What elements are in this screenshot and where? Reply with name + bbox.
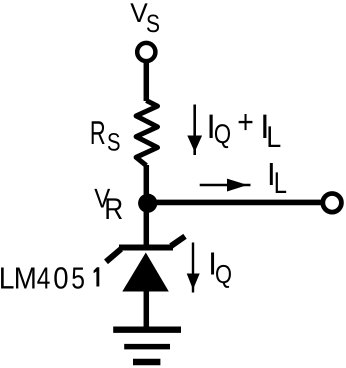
svg-text:S: S — [107, 129, 121, 157]
svg-text:0: 0 — [53, 261, 68, 295]
arrow IL current — [200, 179, 251, 192]
node VS label — [130, 0, 160, 38]
svg-text:4: 4 — [37, 261, 51, 295]
label IQ — [208, 245, 232, 289]
svg-text:5: 5 — [71, 261, 85, 295]
svg-text:R: R — [90, 114, 106, 151]
resistor RS — [136, 101, 157, 166]
zener diode LM4051 cathode bar — [119, 245, 173, 251]
ground symbol — [113, 330, 181, 362]
label IQ + IL — [206, 103, 281, 154]
svg-text:+: + — [237, 103, 254, 140]
svg-text:L: L — [274, 167, 287, 200]
zener diode triangle anode — [122, 253, 169, 292]
label IL — [267, 156, 287, 200]
label LM4051 — [0, 261, 99, 295]
wire node VR to zener — [144, 203, 150, 250]
svg-text:S: S — [146, 10, 160, 38]
wire node VR to load terminal — [147, 200, 321, 206]
terminal IL output — [323, 194, 342, 213]
node VR junction dot — [138, 194, 157, 213]
zener cathode bar left bend — [106, 249, 121, 262]
svg-text:R: R — [104, 193, 123, 226]
terminal VS — [137, 43, 155, 61]
label RS — [90, 114, 121, 157]
svg-text:Q: Q — [215, 259, 232, 289]
svg-text:L: L — [0, 261, 14, 295]
svg-text:L: L — [266, 121, 281, 154]
svg-text:Q: Q — [214, 119, 231, 149]
svg-text:M: M — [14, 261, 37, 295]
wire zener to ground — [144, 291, 150, 329]
arrow IQ current — [187, 243, 200, 293]
arrow IQ+IL current — [187, 105, 202, 156]
label VR — [94, 183, 123, 226]
wire VS terminal to resistor — [144, 63, 150, 101]
wire resistor to node VR — [144, 165, 150, 203]
zener cathode bar right bend — [171, 236, 185, 246]
